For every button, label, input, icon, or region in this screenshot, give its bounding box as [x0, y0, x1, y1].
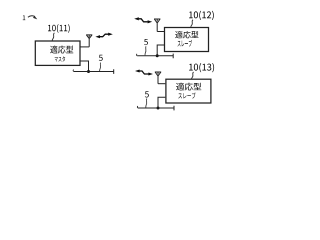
- wireless link zigzag arrow (U2): [139, 19, 148, 22]
- leader for 5 (U1): [100, 63, 101, 71]
- label 10(13): [189, 63, 214, 72]
- wire U2 box to power line: [157, 45, 164, 56]
- leader for 10(11): [52, 33, 54, 41]
- antenna of U3: [155, 72, 161, 84]
- wire U1 to antenna: [80, 46, 89, 48]
- block box U2: adaptive slave: [165, 28, 209, 52]
- U2 text line2 スレーブ: [178, 40, 192, 47]
- junction dot U1: [87, 70, 90, 73]
- junction dot U3: [157, 107, 160, 110]
- power line rail 5 (U2): [137, 54, 173, 59]
- label 5 (U3): [145, 91, 149, 97]
- antenna of U1: [86, 35, 92, 47]
- wire U1 to power line: [80, 61, 89, 72]
- power line rail 5 (U1): [74, 69, 114, 74]
- U1 text line2 マスタ: [55, 56, 65, 61]
- junction dot U2: [156, 54, 159, 57]
- U1 text line1 適応型: [50, 45, 73, 53]
- power line rail 5 (U3): [138, 106, 174, 111]
- leader for 10(13): [191, 72, 193, 79]
- U3 text line2 スレーブ: [178, 92, 195, 98]
- label 10(11): [48, 24, 70, 33]
- U3 text line1 適応型: [176, 83, 201, 91]
- system reference numeral 1: [23, 15, 26, 20]
- wireless link zigzag arrow (U3): [139, 71, 148, 74]
- label 5 (U2): [144, 39, 148, 45]
- wire U3 box to power line: [158, 97, 165, 108]
- leader for 5 (U2): [145, 46, 146, 55]
- leader squiggle arrow for numeral 1: [28, 16, 35, 18]
- leader for 10(12): [191, 20, 193, 27]
- label 5 (U1): [99, 55, 103, 61]
- block box U1: adaptive master: [35, 41, 80, 65]
- wireless link zigzag arrow 1: [99, 34, 109, 37]
- wire U3 box to antenna: [158, 83, 165, 85]
- wire U2 box to antenna: [157, 31, 164, 33]
- antenna of U2: [154, 19, 160, 32]
- U2 text line1 適応型: [175, 31, 198, 38]
- leader for 5 (U3): [146, 99, 147, 108]
- label 10(12): [189, 11, 214, 20]
- block box U3: adaptive slave: [166, 79, 211, 103]
